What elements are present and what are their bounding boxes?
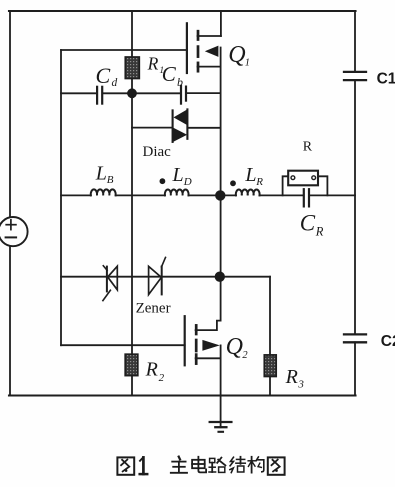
wire Q2 drain jog (196, 321, 221, 331)
transistor Q1 body arrow (205, 46, 219, 57)
source V (DC source circle) (0, 217, 28, 246)
wire outer right rail upper (354, 11, 356, 72)
capacitor Cd (96, 87, 98, 104)
ground (210, 421, 232, 423)
wire L row from box left to LB (61, 194, 91, 196)
wire outer left rail lower (9, 246, 11, 396)
dot polarity LD (160, 178, 166, 184)
zener diode right (149, 266, 162, 294)
wire outer right rail middle (354, 80, 356, 334)
caption char 主 (171, 457, 187, 473)
node dot L-row junction (215, 190, 225, 200)
wire R1 to R2 vertical through node (131, 79, 133, 355)
wire Q1 drain horizontal (198, 35, 221, 37)
wire R3 branch down (269, 277, 271, 355)
svg-text:C2: C2 (381, 333, 395, 350)
caption char 结 (230, 457, 245, 473)
svg-text:Q: Q (228, 42, 245, 68)
wire diac row left (132, 127, 173, 129)
svg-text:2: 2 (159, 372, 165, 384)
node dot zener row junction (215, 272, 225, 282)
wire LD to junction to LR (189, 194, 236, 196)
svg-text:C: C (300, 210, 316, 235)
inductor LB (91, 189, 116, 195)
transistor Q2 gate bar (184, 316, 186, 365)
capacitor C2 (344, 333, 366, 335)
wire from top rail down to R1 (131, 11, 133, 57)
wire Cb to center line (187, 92, 221, 94)
wire R2 to bottom rail (131, 376, 133, 396)
svg-text:R: R (255, 176, 263, 188)
svg-text:L: L (244, 164, 256, 186)
svg-text:C1: C1 (377, 71, 395, 88)
resistor R3 (264, 355, 276, 377)
wire R3 to bottom rail (269, 377, 271, 396)
wire outer top rail (9, 10, 356, 12)
inductor LD (165, 190, 189, 196)
svg-text:R: R (145, 359, 158, 381)
svg-text:R: R (147, 54, 159, 74)
wire Q2 source horizontal (196, 357, 221, 359)
transistor Q2 channel bars (195, 325, 198, 334)
svg-text:Q: Q (226, 334, 243, 360)
svg-text:R: R (285, 366, 298, 388)
resistor R2 (125, 354, 138, 375)
svg-text:C: C (162, 62, 177, 86)
capacitor C1 (344, 71, 366, 73)
caption char 电 (192, 457, 206, 473)
svg-text:2: 2 (242, 350, 248, 361)
lamp R body (288, 171, 318, 186)
inductor LR (236, 190, 260, 196)
svg-text:Zener: Zener (136, 301, 171, 317)
wire center vertical Q1 source down to Q2 drain (220, 48, 222, 321)
svg-text:C: C (96, 63, 111, 88)
caption char 图 (second) (268, 457, 285, 474)
transistor Q1 gate bar (186, 23, 188, 73)
resistor R1 (125, 57, 139, 79)
dot polarity LR (230, 180, 236, 186)
svg-text:R: R (315, 225, 324, 239)
capacitor CR (303, 189, 305, 206)
wire gate-loop box bottom (61, 344, 185, 346)
lamp R (load) arms (283, 176, 289, 195)
wire Cd to node (103, 92, 132, 94)
svg-text:L: L (95, 162, 107, 184)
wire LB to LD (116, 194, 165, 196)
zener diode left (108, 266, 118, 290)
wire outer left rail upper (9, 11, 11, 218)
diac (172, 110, 174, 141)
svg-text:Diac: Diac (143, 144, 172, 160)
svg-text:d: d (112, 77, 118, 89)
node dot at Cd/R1 junction (127, 88, 137, 98)
svg-text:D: D (183, 176, 192, 188)
wire gate-loop box top (61, 49, 187, 51)
capacitor Cb (180, 86, 182, 104)
wire outer bottom rail (9, 394, 356, 396)
wire Q1 source horizontal (198, 66, 221, 68)
wire LR to CR (260, 194, 303, 196)
transistor Q2 body arrow (202, 340, 219, 351)
wire outer right rail lower (354, 342, 356, 395)
caption char 图 (117, 457, 134, 474)
caption char 路 (209, 458, 225, 473)
wire C row left segment (61, 92, 96, 94)
wire Q1 drain stub to top rail (220, 11, 222, 36)
wire zener row (61, 276, 270, 278)
wire CR to right rail (310, 194, 355, 196)
caption char 构 (248, 457, 264, 473)
svg-text:1: 1 (245, 58, 250, 69)
svg-text:3: 3 (297, 378, 304, 390)
caption char 1 (140, 457, 148, 474)
wire gate-loop box left (60, 50, 62, 345)
svg-text:B: B (107, 174, 114, 186)
wire node to Cb (132, 92, 180, 94)
wire Q2 source down through bottom rail to ground (220, 345, 222, 427)
svg-text:L: L (172, 164, 184, 186)
transistor Q1 channel bars (197, 31, 200, 39)
svg-text:b: b (177, 75, 183, 89)
wire diac row right (188, 127, 221, 129)
caption 图1 主电路结构图 (drawn strokes) (117, 457, 284, 475)
svg-text:R: R (303, 139, 313, 154)
